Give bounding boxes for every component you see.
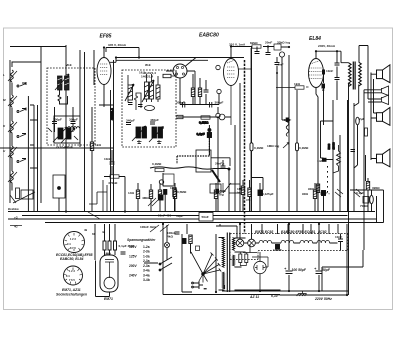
svg-text:2-3a: 2-3a — [143, 264, 150, 268]
svg-text:1kΩ: 1kΩ — [95, 143, 101, 147]
svg-text:1MΩ: 1MΩ — [104, 252, 111, 256]
svg-text:EM71: EM71 — [104, 297, 113, 301]
svg-text:240V, 40mA: 240V, 40mA — [318, 44, 336, 48]
svg-text:50nF: 50nF — [284, 118, 291, 122]
svg-text:390Ω: 390Ω — [372, 186, 380, 190]
svg-text:EC92: EC92 — [318, 230, 327, 234]
svg-text:220V 50Hz: 220V 50Hz — [314, 297, 332, 301]
svg-text:3-4a: 3-4a — [143, 269, 150, 273]
svg-text:300pF: 300pF — [53, 118, 62, 122]
svg-text:W.E: W.E — [145, 63, 151, 67]
svg-text:100 50μF: 100 50μF — [292, 268, 307, 272]
svg-text:240V: 240V — [129, 274, 138, 278]
svg-text:Sockelschaltungen: Sockelschaltungen — [56, 293, 87, 297]
svg-text:8 4: 8 4 — [66, 274, 70, 278]
svg-text:2x12-498pF: 2x12-498pF — [56, 145, 73, 149]
svg-text:EABC80 EF85 ECC81: EABC80 EF85 ECC81 — [281, 230, 315, 234]
svg-text:EABC80: EABC80 — [199, 33, 219, 39]
svg-text:9 4: 9 4 — [67, 242, 71, 246]
svg-text:14Ω: 14Ω — [128, 191, 134, 195]
svg-text:345 V, 40mA: 345 V, 40mA — [108, 43, 127, 47]
svg-text:2μF: 2μF — [359, 117, 365, 121]
svg-text:110V: 110V — [129, 245, 137, 249]
svg-text:300pF: 300pF — [69, 118, 78, 122]
svg-text:0,1MΩ: 0,1MΩ — [199, 121, 209, 125]
svg-text:2-3a: 2-3a — [143, 250, 150, 254]
svg-text:10000: 10000 — [332, 142, 336, 150]
svg-text:50μF: 50μF — [322, 268, 331, 272]
svg-text:log: log — [237, 191, 242, 195]
svg-text:50μF +: 50μF + — [320, 192, 330, 196]
svg-text:90Ω: 90Ω — [302, 192, 308, 196]
svg-text:1MΩ log: 1MΩ log — [267, 144, 279, 148]
svg-text:300pF: 300pF — [215, 101, 224, 105]
svg-text:+G: +G — [14, 216, 18, 220]
svg-text:3-4a: 3-4a — [143, 274, 150, 278]
svg-text:EF85: EF85 — [100, 34, 112, 40]
svg-text:47k: 47k — [246, 198, 251, 202]
svg-text:4a: 4a — [102, 230, 106, 234]
svg-text:4G: 4G — [14, 225, 18, 229]
svg-text:L: L — [3, 73, 5, 77]
svg-text:50nF: 50nF — [202, 215, 209, 219]
svg-text:433/21,4: 433/21,4 — [110, 108, 114, 120]
svg-text:5nF: 5nF — [278, 63, 284, 67]
svg-text:AZ 11: AZ 11 — [249, 295, 259, 299]
svg-text:4kΩ: 4kΩ — [167, 235, 173, 239]
svg-text:0,125μF: 0,125μF — [262, 192, 274, 196]
svg-text:20nF,s: 20nF,s — [215, 162, 225, 166]
svg-text:82kΩ: 82kΩ — [250, 41, 258, 45]
svg-text:0,1μF: 0,1μF — [356, 191, 364, 195]
svg-text:EM71, AZ11: EM71, AZ11 — [62, 288, 81, 292]
svg-text:1 2 3: 1 2 3 — [70, 237, 76, 241]
svg-text:10nF: 10nF — [326, 69, 333, 73]
svg-text:3-4b: 3-4b — [143, 278, 150, 282]
svg-text:0,1MΩ: 0,1MΩ — [299, 146, 309, 150]
svg-text:8 7 5: 8 7 5 — [70, 246, 76, 250]
svg-text:EABC80, EL84: EABC80, EL84 — [60, 257, 83, 261]
svg-text:50pF: 50pF — [176, 214, 183, 218]
svg-text:0,5MΩ: 0,5MΩ — [177, 190, 187, 194]
svg-text:1MΩ: 1MΩ — [170, 186, 177, 190]
svg-text:33kΩ log: 33kΩ log — [277, 41, 290, 45]
svg-text:340pF: 340pF — [126, 119, 135, 123]
svg-text:10nF: 10nF — [335, 235, 342, 239]
svg-text:49: 49 — [84, 228, 88, 232]
svg-text:EL84: EL84 — [309, 36, 321, 42]
svg-text:7 6 5: 7 6 5 — [69, 278, 75, 282]
svg-text:100nF: 100nF — [273, 248, 282, 252]
svg-text:log: log — [219, 193, 224, 197]
svg-text:Drehko: Drehko — [8, 207, 19, 211]
svg-text:0,1μF: 0,1μF — [197, 132, 205, 136]
svg-text:460pF: 460pF — [150, 118, 159, 122]
svg-text:1-2a: 1-2a — [143, 245, 150, 249]
svg-text:300pF: 300pF — [176, 101, 185, 105]
svg-text:Spannungswähler: Spannungswähler — [127, 238, 156, 242]
svg-text:90Ω: 90Ω — [308, 187, 314, 191]
svg-text:1 2 3: 1 2 3 — [69, 269, 75, 273]
svg-text:470kΩ: 470kΩ — [108, 181, 118, 185]
svg-text:4MΩ: 4MΩ — [142, 196, 149, 200]
svg-text:50nF 400: 50nF 400 — [158, 214, 172, 218]
svg-text:5000: 5000 — [327, 143, 331, 149]
svg-text:1nF: 1nF — [317, 159, 323, 163]
svg-text:6,3V~: 6,3V~ — [271, 294, 280, 298]
svg-text:1-3a: 1-3a — [143, 255, 150, 259]
svg-text:20nF: 20nF — [265, 41, 272, 45]
svg-text:60: 60 — [92, 232, 96, 236]
svg-text:1kΩ: 1kΩ — [294, 82, 300, 86]
svg-text:0,1MΩ: 0,1MΩ — [152, 162, 162, 166]
svg-text:0,1MΩ: 0,1MΩ — [254, 146, 264, 150]
svg-text:10nF: 10nF — [104, 157, 111, 161]
svg-text:2-3a: 2-3a — [143, 259, 150, 263]
svg-text:125V: 125V — [129, 255, 138, 259]
svg-text:700Ω: 700Ω — [360, 204, 368, 208]
svg-text:100nF 4kΩ: 100nF 4kΩ — [140, 225, 156, 229]
svg-text:140/21,4: 140/21,4 — [141, 75, 153, 79]
svg-text:200V: 200V — [129, 264, 138, 268]
svg-text:EM71 EC92: EM71 EC92 — [255, 230, 273, 234]
svg-text:W.E: W.E — [66, 63, 72, 67]
